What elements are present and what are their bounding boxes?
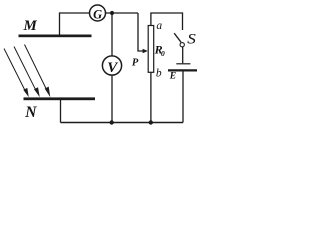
svg-text:a: a [156,20,162,32]
svg-text:G: G [93,7,102,21]
svg-text:S: S [187,32,196,48]
svg-text:N: N [24,104,37,121]
svg-text:P: P [132,58,139,69]
svg-text:E: E [169,71,176,82]
svg-text:b: b [156,68,162,80]
svg-text:M: M [23,18,38,34]
